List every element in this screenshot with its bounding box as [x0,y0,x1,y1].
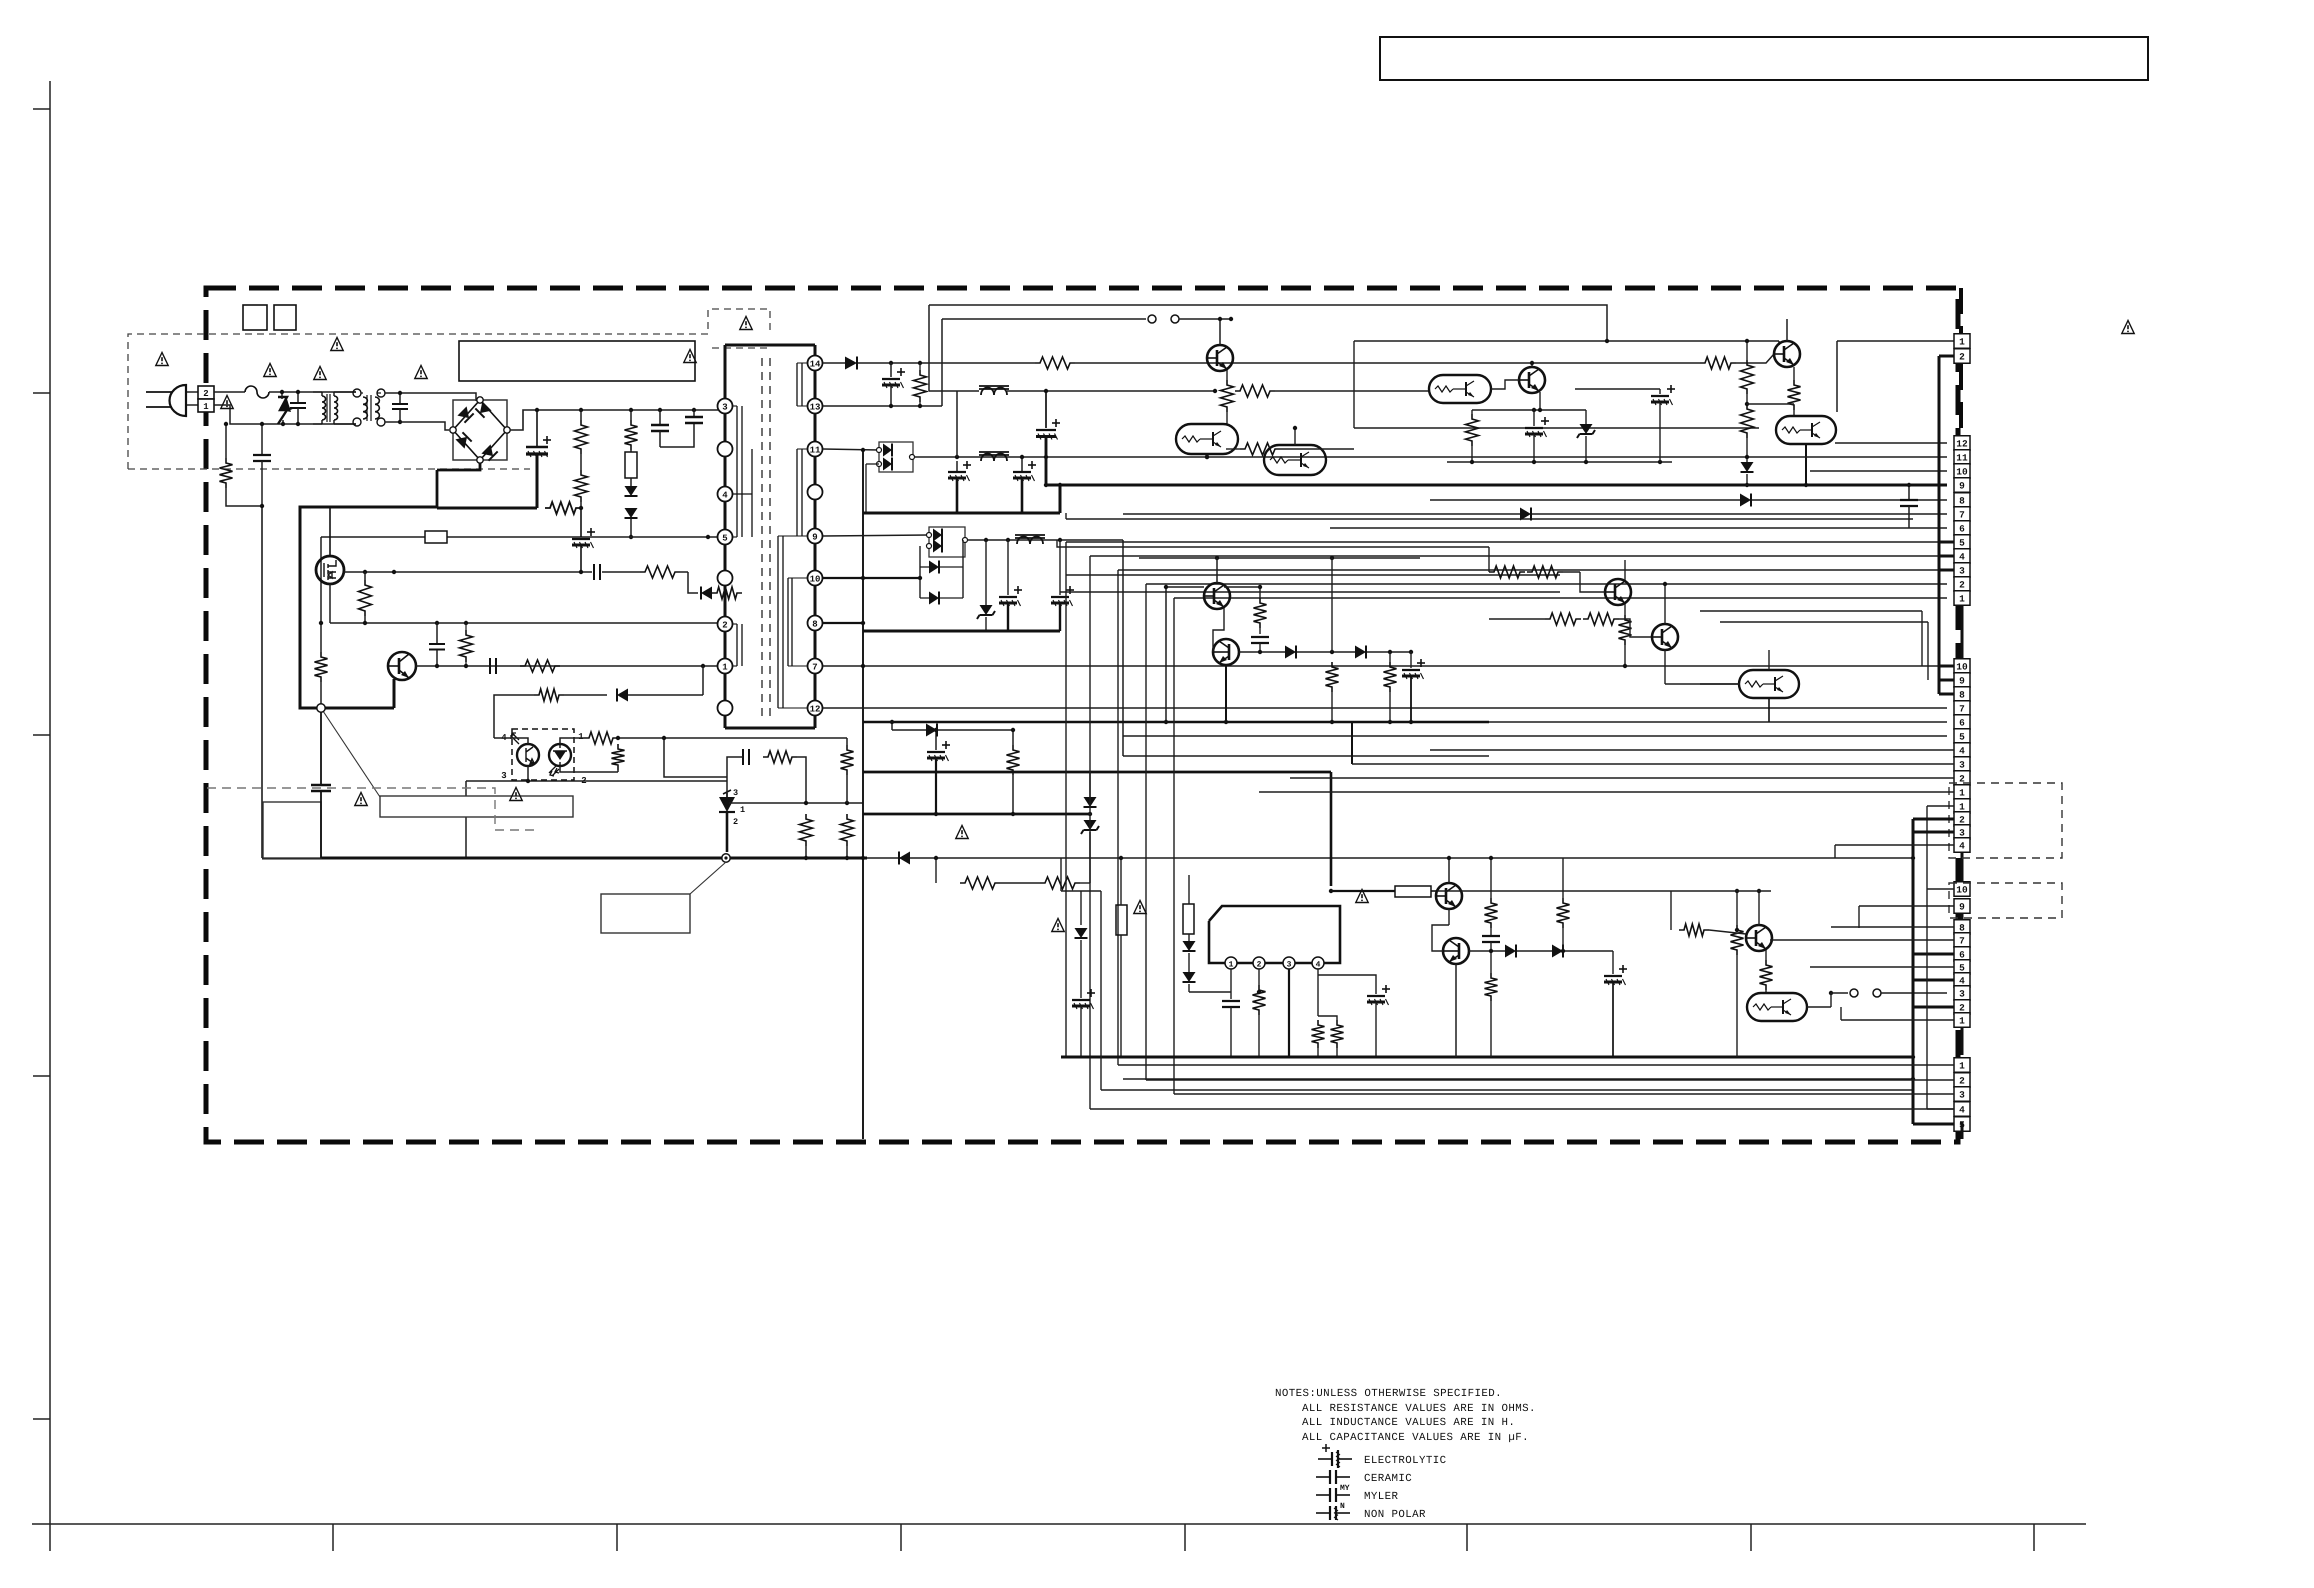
wire riser x942 [941,319,943,406]
svg-text:9: 9 [1959,902,1965,913]
vertical x1354 [1353,341,1355,428]
wire Q902 base [393,679,395,708]
line filter choke L902 [353,389,361,397]
warning triangle [314,367,326,380]
connector pin 7 [1954,701,1970,716]
resistor R939 [1485,898,1498,928]
diode D918 [1183,941,1196,951]
wire y803 divider rail [727,802,863,804]
IC901 pin 4 [1312,957,1324,969]
resistor R933 emitter [1624,604,1626,615]
svg-text:3: 3 [1959,989,1965,1000]
callout label box B [380,796,573,817]
wire Q907 emitter [1539,392,1541,410]
electrolytic C918 [1659,389,1661,394]
bus riser x1060 [1059,485,1062,513]
diode D917 [1080,891,1082,925]
vertical x863 secondary common [862,450,864,1139]
digital transistor Q909 [1776,416,1836,444]
rail y457 to CN [1429,456,1947,458]
svg-text:NON POLAR: NON POLAR [1364,1509,1426,1521]
svg-text:7: 7 [812,662,817,672]
wire startup line y537 [321,536,718,538]
transistor Q915 [1443,938,1469,964]
resistor R918 y391 [1235,385,1275,397]
svg-text:2: 2 [1959,815,1965,826]
transistor Q912 [1605,579,1631,605]
connector pin 6 [1954,947,1970,962]
resistor R925 [1471,410,1473,414]
thick rail y814 [863,813,1090,816]
resistor R937 [1312,1020,1325,1048]
warning triangle box [712,347,770,349]
wire y572 segment [1488,547,1490,572]
svg-text:9: 9 [1959,676,1965,687]
wires Q910 Q911 couple [1213,608,1224,652]
svg-text:2: 2 [1959,580,1965,591]
T901 pin4 stub [732,493,752,495]
wire bridge positive output to T1 pin3 rail [510,410,718,430]
svg-text:ALL RESISTANCE VALUES ARE IN O: ALL RESISTANCE VALUES ARE IN OHMS. [1302,1403,1536,1415]
series resistor R908 in y666 [520,660,560,672]
svg-text:10: 10 [1956,467,1968,478]
relay switch line y319 [942,318,1146,320]
rail y611 [1700,610,1922,612]
switch SW901 line [1829,991,1833,995]
title block box [1380,37,2148,80]
junction ring at block output [317,704,325,712]
resistor R902 in negative bus [545,502,581,514]
series RC to TL431 C909 R912 [727,757,743,783]
electrolytic C924 [1318,975,1376,994]
svg-text:12: 12 [1956,439,1968,450]
connector pin 2 [1954,577,1970,592]
wire rect out y457 [914,456,1429,458]
dual diode D907 package [929,527,965,557]
connector pin 2 [1954,771,1970,786]
resistor R941 [1557,898,1570,928]
wire Q915 collector y951 [1469,950,1505,952]
wire CN905 CN906 stubs [1859,905,1954,907]
warning triangle [2122,321,2134,334]
wire primary cold rail down [261,506,263,858]
legend ceramic symbol [1316,1476,1330,1478]
rail y1079 [1123,1078,1913,1080]
photocoupler phototransistor [517,744,539,766]
wire B11 left [1021,456,1023,458]
connector pin 2 [1954,1073,1970,1088]
svg-text:3: 3 [1959,760,1965,771]
connector CN901 dashed spine [1959,288,1963,334]
resistor R932 [1527,566,1563,578]
snubber resistor R947 [712,587,742,599]
resistor R910 LED series [584,732,618,744]
diode D909 [929,592,939,605]
digital transistor Q904 [1176,424,1238,454]
IC901 pin 2 [1253,957,1265,969]
svg-text:NOTES:UNLESS OTHERWISE SPECIFI: NOTES:UNLESS OTHERWISE SPECIFIED. [1275,1388,1502,1400]
ground link vertical x1939 [1938,356,1941,666]
svg-text:6: 6 [1959,950,1965,961]
startup resistor R903 upper [579,408,583,412]
wire y341 [1354,340,1779,342]
T901 pin 13 [808,399,823,414]
resistor R929 [1254,598,1267,628]
snubber branch diode D924 [688,572,698,593]
wire pin12 long y708 [823,707,1947,709]
svg-text:3: 3 [733,788,738,798]
transformer winding bars right [796,363,798,406]
wire y389 ext [1575,388,1660,390]
wire MOSFET source down [329,584,331,623]
resistor R915 divider bottom2 [841,814,854,846]
digital transistor Q905 [1264,445,1326,475]
svg-text:5: 5 [1959,538,1965,549]
wire drive rail y572 [344,571,592,573]
transistor Q918 [1652,624,1678,650]
wire opto pin1 LED anode [560,738,584,744]
wire pin11 y450 [823,449,879,450]
connector pin 8 [1954,920,1970,935]
AC plug P1 [170,385,186,416]
wire choke upper y391 [929,390,957,392]
legend non-polar symbol [1316,1512,1330,1514]
connector pin 5 [1954,535,1970,550]
T901 pin 4 [718,487,733,502]
electrolytic C922 [1072,999,1090,1001]
svg-text:1: 1 [1959,802,1965,813]
power supply board dashed outline [206,288,1958,1142]
resistor R916 in rail [1035,357,1075,369]
rail y519 [1066,518,1913,520]
wire Q911 collector y652 [1239,651,1285,653]
svg-text:4: 4 [1959,552,1965,563]
capacitor C906 near pin3 [692,408,696,412]
part number strip box [459,341,695,381]
electrolytic C912 main out [1045,391,1047,428]
transistor Q907 [1519,367,1545,393]
wire y623 to T1 pin2 [330,622,718,624]
rail y722 thick [863,721,1489,724]
svg-text:10: 10 [1956,662,1968,673]
svg-text:12: 12 [810,704,821,714]
choke L904 upper [979,388,1009,390]
wire B6 [1330,527,1947,529]
transistor Q910 [1204,583,1230,609]
electrolytic C916 [1059,540,1061,595]
resistor R944 [1765,950,1767,960]
wire rect2 out y540 [967,539,1123,541]
T901 pin 8 [808,616,823,631]
connector pin 4 [1954,973,1970,988]
connector pin 1 [1954,334,1970,349]
warning triangle [415,366,427,379]
connector pin 10 [1954,659,1970,674]
callout label box C [601,894,690,933]
resistor R913 divider top [841,745,854,775]
svg-text:1: 1 [1229,961,1234,970]
diode D908 [919,546,921,598]
wire choke to X-cap [385,392,445,394]
rail y736 [1123,735,1947,737]
T901 pin blank c [718,701,733,716]
connector pin 9 [1954,478,1970,493]
svg-text:1: 1 [1959,1016,1965,1027]
resistor R945 in rail right [1700,357,1736,369]
svg-text:2: 2 [1959,1003,1965,1014]
capacitor C903 [261,424,263,455]
T901 pin 5 [718,530,733,545]
electrolytic C914 [1021,457,1023,472]
choke L903 [979,454,1009,456]
svg-text:1: 1 [1959,788,1965,799]
diode D921 [1552,945,1563,958]
electrolytic C921 [1410,652,1412,668]
connector pin 3 [1954,825,1970,840]
connector pin 4 [1954,743,1970,758]
diode D922 on B7 line [1520,508,1531,521]
svg-text:6: 6 [1959,524,1965,535]
svg-text:1: 1 [1959,337,1965,348]
capacitor C927 under main bus [1908,485,1910,500]
T901 pin 3 [718,399,733,414]
AC input dashed enclosure [128,309,770,469]
svg-text:2: 2 [1257,961,1262,970]
svg-text:1: 1 [1959,1061,1965,1072]
capacitor across line C901 [297,392,299,403]
wire y558 [1139,557,1420,559]
connector pin 1 [1954,799,1970,814]
wire opto pin4 [494,738,528,744]
bottom rails [1100,891,1102,1090]
warning triangle [740,317,752,330]
wire bridge negative output [437,463,480,470]
svg-text:4: 4 [1959,841,1965,852]
svg-text:8: 8 [1959,923,1965,934]
bridge rectifier D901 [453,400,507,460]
fusible resistor FR902 [425,531,447,543]
resistor R948 [1389,652,1391,662]
zener cluster x1090 [1089,772,1091,797]
svg-text:ALL CAPACITANCE VALUES ARE IN: ALL CAPACITANCE VALUES ARE IN µF. [1302,1432,1529,1444]
svg-text:3: 3 [501,771,506,781]
capacitor C920 [1251,636,1269,638]
svg-text:8: 8 [1959,690,1965,701]
diode D915 [1285,646,1296,659]
warning triangle [1052,919,1064,932]
svg-text:11: 11 [810,445,821,455]
wire TL431 anode to cold bus [726,812,729,852]
IC901 pin 3 [1283,957,1295,969]
grey service dashed zone [207,788,540,830]
diode D905 [845,357,857,370]
connector pin 6 [1954,521,1970,536]
warning triangle [221,396,233,409]
connector pin 11 [1954,450,1970,465]
svg-text:9: 9 [1959,481,1965,492]
digital transistor Q917 [1747,993,1807,1021]
resistor R934 fusible [1116,905,1127,935]
fusible resistor FR901 [625,452,637,478]
connector pin 10 [1954,464,1970,479]
connector pin 5 [1954,729,1970,744]
resistor R907 [460,630,473,662]
diode D912 y730 [892,729,926,731]
capacitor C905 [658,408,662,412]
callout label box A [263,802,321,858]
electrolytic C917 [935,730,937,750]
resistor R930 mid [1331,558,1333,652]
photocoupler LED [549,744,571,766]
IC pin1 capacitor C923 [1230,969,1232,999]
diode D903 [625,508,638,518]
wire opto pin3 emitter [527,766,529,781]
svg-text:1: 1 [578,732,584,742]
electrolytic C919 [1533,410,1535,426]
resistor R905 gate [359,580,372,616]
link x1927 [1926,806,1928,1109]
IC pin3 wire [1288,969,1290,1057]
connector pin 5 [1954,1117,1970,1132]
stair verticals [1065,542,1067,1057]
thick rail y772 [863,771,1331,774]
svg-text:5: 5 [1959,963,1965,974]
diode D919 [1183,972,1196,982]
connector pin 8 [1954,493,1970,508]
T901 pin 7 [808,659,823,674]
wire y781 opto emitter return [466,780,727,782]
svg-text:3: 3 [722,402,727,412]
rail y575 [1066,574,1560,576]
resistor R906 lower-left [315,652,328,682]
connector chain links [1961,606,1964,658]
electrolytic C926 [1612,951,1614,974]
resistor R928 Q908 emitter [1793,367,1795,380]
svg-text:5: 5 [722,533,727,543]
svg-text:8: 8 [1959,496,1965,507]
main output bus y485 to CN pin9 [1046,484,1947,487]
connector pin 3 [1954,563,1970,578]
resistor R901 across line [225,424,227,458]
T901 pin blank b [718,571,733,586]
riser x1352 [1351,722,1353,764]
resistor R926 chain [1741,360,1754,394]
svg-text:10: 10 [810,574,821,584]
connector pin 4 [1954,838,1970,853]
svg-text:1: 1 [740,805,745,815]
svg-text:2: 2 [722,620,727,630]
svg-text:8: 8 [812,619,817,629]
digital transistor Q906 [1429,375,1491,403]
electrolytic C915 [1007,540,1009,595]
connector pin 1 [1954,785,1970,800]
electrolytic C913 [956,461,958,472]
wire pin8 y623 [823,622,863,624]
resistor R904 to fuse [629,408,633,412]
resistor R911 LED parallel [612,744,625,770]
wire Q902 collector rail y666 [416,665,718,667]
connector pin 3 [1954,986,1970,1001]
connector pin 6 [1954,715,1970,730]
transistor Q902 driver [388,652,416,680]
wire CN907 leads [1118,1064,1954,1066]
wire LED cathode [560,766,618,772]
MOSFET Q901 [316,556,344,584]
wire Q912 collector [1624,560,1626,580]
resistor R919 y861 [936,860,978,862]
ground link vertical x1913 [1912,819,1915,1124]
wire Q916 collector [1758,891,1760,925]
connector pin 2 [1954,349,1970,364]
svg-text:MYLER: MYLER [1364,1491,1399,1503]
snubber line y543 from transformer [437,542,735,544]
wire Q909 down [1805,444,1807,485]
svg-text:4: 4 [1959,976,1965,987]
rail y1090 [1101,1089,1913,1091]
connector pin 9 [1954,899,1970,914]
warning triangle [684,350,696,363]
series capacitor C928 in gate rail [593,564,595,580]
feedback resistor R909 y695 [494,695,534,738]
wire B7 [1123,513,1520,515]
wire y587 base rail [1166,586,1204,588]
wire fuse line to MOSFET gate [436,524,438,543]
svg-text:14: 14 [810,359,821,369]
resistor R940 [1490,951,1492,973]
wire y891 [1061,890,1101,892]
ground bus y1057 [1061,1056,1913,1059]
rail y547 [1057,540,1489,547]
wire y858 node riser [1060,858,1062,891]
wire y410 [1472,409,1586,411]
connector pin 1 [1954,1058,1970,1073]
series capacitor C908 in y666 [489,658,491,674]
wire MOSFET drain up [329,507,331,556]
T901 pin 12 [808,701,823,716]
leader line to box B [321,708,380,797]
warning triangle [264,364,276,377]
capacitor C907 [436,623,438,644]
connector pin 4 [1954,1102,1970,1117]
top rail y305 [929,305,1607,341]
svg-text:3: 3 [1287,961,1292,970]
digital transistor Q913 [1739,670,1799,698]
svg-text:3: 3 [1959,1090,1965,1101]
svg-text:ALL INDUCTANCE VALUES ARE IN H: ALL INDUCTANCE VALUES ARE IN H. [1302,1417,1515,1429]
dual diode D906 package [879,442,913,472]
shunt regulator IC901 TL431 [719,797,735,812]
wire to bridge AC inputs [445,393,476,401]
svg-text:10: 10 [1956,885,1968,896]
T901 pin 1 [718,659,733,674]
board marker squares [243,305,267,330]
connector pin 9 [1954,673,1970,688]
T901 pin 14 [808,356,823,371]
T901 pin 2 [718,617,733,632]
svg-text:7: 7 [1959,510,1965,521]
wire CN903 stubs [1939,679,1954,681]
rail y622 [1720,621,1928,623]
resistor R927 [1741,404,1754,438]
diode D902 [630,478,632,486]
svg-text:2: 2 [1959,352,1965,363]
fusible resistor FR903 [1330,772,1333,886]
transistor Q911 [1213,639,1239,665]
warning triangle [156,353,168,366]
svg-text:4: 4 [1959,746,1965,757]
svg-text:1: 1 [722,662,728,672]
regulator IC901 outline [1209,906,1340,963]
